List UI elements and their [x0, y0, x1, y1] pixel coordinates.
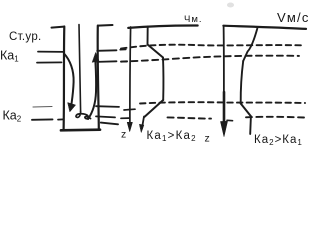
flowmeter spinner loop: [76, 111, 91, 118]
right velocity profile top slanted segment: [243, 29, 257, 62]
upflow arrowhead: [92, 53, 99, 63]
right Z axis heavy lower shaft: [223, 92, 226, 126]
svg-text:Чм.: Чм.: [184, 14, 203, 25]
dash continuation: [120, 48, 126, 50]
dashed aquifer2 bottom boundary right piece: [246, 116, 304, 119]
well right wall: [98, 26, 99, 129]
dashed aquifer2 bottom boundary at right axis: [227, 119, 233, 121]
right profile bottom segment: [249, 116, 252, 134]
right-side line aquifer1 top: [97, 49, 116, 52]
aquifer-2 mark faint dash: [33, 106, 52, 109]
middle Z axis arrowhead: [127, 122, 132, 131]
right Z axis big arrowhead: [221, 121, 228, 136]
dashed aquifer1 top boundary: [121, 45, 301, 49]
downflow arrowhead: [68, 103, 76, 112]
dashed aquifer2 bottom boundary left piece: [121, 117, 130, 119]
right-side short line at well bottom corner: [101, 123, 118, 125]
well bottom: [61, 128, 100, 131]
well right lip line: [98, 24, 113, 27]
right diagram top line: [223, 26, 306, 29]
dashed aquifer2 bottom boundary middle piece: [168, 117, 212, 118]
static level lip line left of well: [52, 27, 65, 28]
aquifer-1 level line upper: [38, 51, 63, 53]
dash continuation: [121, 61, 127, 63]
right-side line aquifer1 bottom: [97, 60, 116, 63]
middle profile step back across aquifer2: [145, 100, 164, 117]
well left wall: [62, 27, 65, 130]
downflow curved arrow inside well: [64, 54, 74, 105]
right-side line aquifer2 bottom: [96, 116, 115, 117]
middle velocity profile upper segment: [147, 27, 149, 45]
svg-text:Vм/с: Vм/с: [277, 10, 310, 25]
svg-text:Ка2>Ка1: Ка2>Ка1: [254, 134, 303, 147]
middle profile step across aquifer1: [148, 45, 164, 58]
aquifer-2 small dash right: [58, 118, 63, 120]
faint scan smudge top right: [227, 3, 234, 8]
right Z axis: [223, 26, 225, 124]
dashed aquifer2 top boundary: [140, 102, 305, 103]
svg-text:Ка2: Ка2: [3, 109, 22, 124]
middle profile outlet arrow: [142, 117, 144, 129]
svg-text:Ка1: Ка1: [0, 49, 19, 64]
svg-text:Ст.ур.: Ст.ур.: [9, 31, 42, 43]
svg-text:Ка1>Ка2: Ка1>Ка2: [147, 130, 197, 143]
svg-text:z: z: [205, 133, 210, 145]
flowmeter cable (inner line): [79, 25, 81, 112]
middle diagram top line: [128, 25, 197, 27]
right profile step across aquifer2: [241, 104, 251, 117]
dashed aquifer2 top boundary short dash at axis: [124, 108, 135, 111]
upflow curved arrow inside well: [88, 62, 96, 120]
middle profile outlet arrowhead: [140, 124, 144, 132]
aquifer-1 level line lower: [37, 61, 62, 63]
right-side line aquifer2 top: [96, 105, 119, 108]
middle Z axis: [129, 27, 132, 127]
aquifer-2 mark dash: [32, 118, 53, 120]
middle profile mid segment: [162, 58, 164, 101]
svg-text:z: z: [121, 129, 126, 141]
right profile mid segment: [241, 61, 244, 104]
dashed aquifer1 bottom boundary: [121, 56, 299, 62]
